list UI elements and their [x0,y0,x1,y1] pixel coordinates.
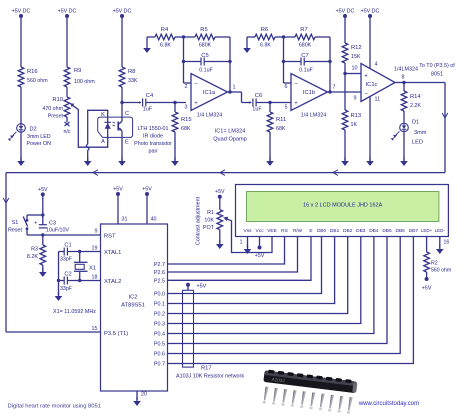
svg-text:Preset: Preset [48,114,64,120]
wire P2.6 to LCD R/W [154,245,298,277]
wire P0.1 to LCD DB1 [154,245,335,308]
svg-text:P0.4: P0.4 [154,332,165,338]
svg-text:POT: POT [203,225,215,231]
wire pin2 to feedback node [184,37,192,83]
pin 1 label [240,240,243,246]
ground for photo transistor emitter [118,157,126,166]
svg-text:P0.7: P0.7 [154,362,165,368]
pin 11 wire [370,97,380,163]
svg-text:100 ohm: 100 ohm [74,79,95,85]
svg-text:n/c: n/c [63,129,70,135]
svg-text:www.circuitstoday.com: www.circuitstoday.com [358,401,419,407]
LCD module box [236,185,449,237]
node R6/R7 junction [282,35,285,38]
pin 10 label [352,66,358,72]
svg-text:IC1c: IC1c [366,82,378,88]
resistor R13 [342,74,361,163]
svg-text:33K: 33K [128,78,138,84]
node reset top [41,213,44,216]
svg-text:1K: 1K [351,122,358,128]
pin 8 label [402,75,405,81]
microcontroller IC2 AT89S51 box [101,224,168,391]
svg-text:pair: pair [149,149,158,155]
svg-text:1uF: 1uF [143,106,153,112]
svg-text:10K: 10K [204,218,214,224]
label XTAL1 [104,250,121,256]
pin 19 label [92,246,98,252]
resistor R16 [18,67,48,124]
label K [101,112,105,118]
wire RST [43,229,116,240]
svg-text:3mm: 3mm [414,130,427,136]
svg-text:P0.1: P0.1 [154,302,165,308]
potentiometer R1 contrast [203,189,225,243]
svg-text:IC1b: IC1b [303,90,315,96]
svg-text:11: 11 [375,97,381,103]
capacitor C1 [59,243,101,263]
svg-text:5: 5 [285,104,288,110]
svg-text:33pF: 33pF [60,257,73,263]
svg-text:R17: R17 [201,366,212,372]
wire P0.7 to LCD DB7 [154,245,413,368]
svg-text:X1= 11.0592 MHz: X1= 11.0592 MHz [53,309,96,315]
wire P0.5 to LCD DB5 [154,245,387,348]
svg-text:−: − [364,92,368,98]
svg-text:A: A [101,139,105,145]
svg-text:3mm LED: 3mm LED [27,134,51,140]
svg-text:0.1uF: 0.1uF [199,68,213,74]
wire P0.0 to LCD DB0 [154,245,322,298]
node XTAL2 [78,279,81,282]
svg-text:+5V: +5V [422,286,432,292]
svg-text:R7: R7 [300,27,307,33]
resistor R3 [27,235,46,272]
ground for R4 [143,44,151,53]
svg-text:P0.3: P0.3 [154,322,165,328]
svg-text:R15: R15 [181,117,192,123]
svg-text:P2.6: P2.6 [154,270,165,276]
svg-text:Power ON: Power ON [27,141,52,147]
wire collector node to C4 [122,102,141,104]
svg-text:31: 31 [122,217,128,223]
capacitor C4 [138,93,186,113]
node IC1c output [395,81,406,84]
svg-text:1/4 LM324: 1/4 LM324 [301,113,326,119]
svg-text:C7: C7 [301,53,308,59]
svg-text:+: + [364,74,368,80]
pin 16 label [444,240,450,246]
power rail +5V DC node 2 [58,9,77,68]
svg-text:+: + [138,101,141,107]
svg-text:R3: R3 [31,247,38,253]
svg-text:P2.7: P2.7 [154,262,165,268]
pin 18 label [92,275,98,281]
svg-text:680K: 680K [299,43,312,49]
ground for R11 [266,157,274,166]
label contrast adjustment [196,196,202,245]
svg-text:AT89S51: AT89S51 [121,303,145,309]
svg-text:R11: R11 [276,117,286,123]
svg-text:C5: C5 [201,53,208,59]
resistor network R17 box [176,283,244,380]
label To T0 (P3.5) of 8051 [419,63,455,78]
svg-text:X1: X1 [89,266,96,272]
svg-text:560 ohm: 560 ohm [431,268,451,274]
ground for D2 [17,157,25,166]
svg-text:D2: D2 [30,127,37,133]
svg-text:P3.5 (T1): P3.5 (T1) [104,331,128,337]
op-amp IC1c [361,64,395,102]
label 1/4LM324 for IC1c [394,67,418,73]
pin 4 label [375,62,378,68]
svg-text:P0.5: P0.5 [154,342,165,348]
svg-text:1: 1 [240,240,243,246]
resistor R6 [247,27,284,49]
svg-text:16: 16 [444,240,450,246]
wire pin6 to feedback node [284,37,292,83]
svg-text:IC2: IC2 [128,295,137,301]
LED D2 power-on [8,123,51,162]
svg-text:1uF: 1uF [252,106,262,112]
ground for R13 [341,157,349,166]
svg-text:15: 15 [92,326,98,332]
label X1 frequency [53,309,96,315]
svg-text:6.8K: 6.8K [260,43,271,49]
ground for LED- [436,245,444,255]
svg-text:R9: R9 [74,68,81,74]
svg-text:DB7: DB7 [409,228,419,234]
R10 wiper arrow wire [70,103,108,147]
resistor R12 [342,43,361,74]
wire P0.6 to LCD DB6 [154,245,400,358]
wire P0.3 to LCD DB3 [154,245,361,328]
svg-text:16 x 2 LCD MODULE JHD 162A: 16 x 2 LCD MODULE JHD 162A [303,203,382,209]
label E [125,140,129,146]
wire divider to pin10 [345,73,361,75]
photo of SIP resistor network [263,369,358,414]
svg-text:2: 2 [185,84,188,90]
preset resistor R10 [42,97,71,135]
pin 6 label [285,84,288,90]
ground for crystal caps [55,292,63,301]
svg-text:8051: 8051 [431,72,443,78]
svg-text:LED-: LED- [435,228,446,233]
svg-text:To T0 (P3.5) of: To T0 (P3.5) of [419,63,455,69]
svg-text:K: K [101,112,105,118]
ground for IR diode [84,157,92,166]
title Digital heart rate monitor using 8051 [8,404,101,410]
svg-text:1: 1 [233,85,236,91]
svg-text:C: C [125,111,129,117]
label LTH 1550-01 block [134,126,172,155]
svg-text:C2: C2 [64,272,71,278]
svg-text:40: 40 [151,217,157,223]
photo transistor (inside opto) [118,103,122,163]
power rail +5V DC node 5 [361,9,380,69]
svg-text:DB2: DB2 [343,228,353,234]
resistor R2 backlight [422,245,451,292]
node XTAL1 [78,250,81,253]
svg-text:10uF/10V: 10uF/10V [46,228,69,234]
svg-text:33pF: 33pF [60,286,73,292]
svg-text:LTH 1550-01: LTH 1550-01 [137,126,168,132]
node divider / pin10 [343,72,346,75]
power +5V pin 31 [113,187,127,225]
ground for R1 [216,240,224,249]
wire R5/C5 to output node [228,37,231,94]
svg-text:3: 3 [185,104,188,110]
ground for pin 20 [133,397,141,406]
ground for R15 [171,157,179,166]
svg-text:+: + [194,101,198,107]
capacitor C3 [34,220,69,233]
svg-text:8.2K: 8.2K [27,254,38,260]
svg-text:10: 10 [352,66,358,72]
svg-text:+5V: +5V [255,253,265,259]
svg-text:DB5: DB5 [382,228,392,234]
label www.circuitstoday.com [358,401,419,407]
svg-text:−: − [194,82,198,88]
svg-text:D1: D1 [412,120,419,126]
resistor R11 [267,103,286,163]
svg-text:P0.6: P0.6 [154,352,165,358]
svg-text:+5V DC: +5V DC [336,9,355,15]
svg-text:R12: R12 [351,45,362,51]
svg-text:1/4LM324: 1/4LM324 [394,67,418,73]
opto-coupler package LTH1550 outline [98,117,133,137]
svg-text:+: + [34,220,37,226]
svg-text:C6: C6 [255,93,262,99]
svg-text:+5V: +5V [38,187,48,193]
svg-text:P2.5: P2.5 [154,278,165,284]
svg-text:IC1= LM324: IC1= LM324 [215,129,246,135]
op-amp IC1b [291,74,328,119]
svg-text:+5V DC: +5V DC [361,9,380,15]
push switch S1 reset [8,215,43,235]
IR diode (inside opto) with K-A wire [104,122,115,131]
svg-text:Contrast adjustment: Contrast adjustment [196,196,202,245]
svg-text:E: E [125,140,129,146]
svg-text:R5: R5 [200,27,207,33]
svg-text:DB6: DB6 [396,228,406,234]
svg-text:Quad Opamp: Quad Opamp [213,137,247,143]
svg-text:VEE: VEE [267,228,277,234]
capacitor C2 [59,272,101,292]
pin 15 label [92,326,98,332]
svg-text:+5V: +5V [113,187,123,193]
pin 5 label [285,104,288,110]
resistor R8 [119,67,138,103]
power +5V at Vcc [255,245,265,260]
resistor R15 [172,103,191,163]
node C4 / R15 / pin3 [173,101,176,104]
svg-text:+5V DC: +5V DC [12,9,31,15]
ground for D1 [400,157,408,166]
svg-text:+5V: +5V [197,284,207,290]
svg-text:R6: R6 [261,27,268,33]
svg-text:RS: RS [281,228,288,234]
pin 1 label [233,85,236,91]
svg-text:+5V: +5V [215,189,225,195]
resistor R14 [401,83,421,123]
svg-text:68K: 68K [276,126,286,132]
node C6 / R11 / pin5 [268,101,271,104]
svg-text:C1: C1 [64,243,71,249]
svg-text:18: 18 [92,275,98,281]
svg-text:E: E [309,228,312,234]
label C [125,111,129,117]
svg-text:LED: LED [412,140,423,146]
crystal X1 [74,252,96,281]
svg-text:7: 7 [333,85,336,91]
resistor R7 [284,27,331,49]
pin 7 label [333,85,336,91]
svg-text:Vss: Vss [244,228,253,234]
power rail +5V DC node 1 [12,9,31,68]
svg-text:R8: R8 [128,69,135,75]
node at R8 / C4 / collector [120,101,123,104]
op-amp IC1a [191,74,228,119]
label XTAL2 [104,279,121,285]
svg-text:RST: RST [104,233,116,239]
power rail +5V DC node 3 [113,9,132,68]
svg-text:+5V DC: +5V DC [113,9,132,15]
svg-text:C3: C3 [49,221,56,227]
resistor R5 [184,27,231,49]
svg-text:R13: R13 [351,113,362,119]
svg-text:DB0: DB0 [317,228,327,234]
ground for R6 [243,44,251,53]
wire P0.4 to LCD DB4 [154,245,374,338]
svg-text:Vcc: Vcc [256,228,265,234]
svg-text:IR diode: IR diode [143,134,163,140]
LED D1 [391,120,427,163]
svg-text:Digital heart rate monitor usi: Digital heart rate monitor using 8051 [8,404,101,410]
svg-text:20: 20 [141,392,147,398]
svg-text:LED+: LED+ [421,228,433,233]
svg-text:0.1uF: 0.1uF [299,68,313,74]
svg-text:Reset: Reset [8,228,23,234]
wire IC1c output to T0 (feedback to 8051) [3,83,448,333]
svg-text:9: 9 [95,229,98,235]
svg-text:680K: 680K [199,43,212,49]
svg-text:15K: 15K [351,54,361,60]
capacitor C6 [248,93,291,113]
capacitor C5 [184,53,231,74]
svg-text:IC1a: IC1a [203,90,216,96]
svg-text:+5V DC: +5V DC [58,9,77,15]
svg-text:DB1: DB1 [330,228,340,234]
svg-text:470 ohm: 470 ohm [42,106,63,112]
svg-text:8: 8 [402,75,405,81]
svg-text:R14: R14 [410,94,421,100]
ground for Vss [244,245,252,255]
pin 20 ground wire [137,391,147,400]
svg-text:R4: R4 [161,27,169,33]
LCD pin labels [244,228,446,234]
svg-text:9: 9 [354,96,357,102]
svg-text:1/4 LM324: 1/4 LM324 [197,113,222,119]
svg-text:A103J 10K Resistor network: A103J 10K Resistor network [176,374,244,380]
svg-text:Photo transistor: Photo transistor [134,141,172,147]
svg-text:68K: 68K [181,126,191,132]
ground for pin 11 [366,157,374,166]
svg-text:6.8K: 6.8K [160,43,171,49]
wire IC1a output to C6 [228,92,252,103]
svg-text:C4: C4 [146,93,154,99]
svg-text:P0.2: P0.2 [154,312,165,318]
node C5 junction [182,60,185,63]
resistor R4 [147,27,184,49]
label P3.5 (T1) [104,331,128,337]
svg-text:P0.0: P0.0 [154,292,165,298]
node C7 junction [282,60,285,63]
label A [101,139,105,145]
node reset bottom [41,233,44,236]
svg-text:R1: R1 [207,210,214,216]
svg-text:XTAL2: XTAL2 [104,279,121,285]
svg-text:−: − [294,82,298,88]
label IC1 = LM324 [213,129,247,143]
resistor R9 [64,67,95,97]
svg-text:R10: R10 [52,97,63,103]
svg-text:+: + [294,101,298,107]
node R4/R5 junction [182,35,185,38]
svg-text:+: + [248,101,251,107]
capacitor C7 [284,53,331,74]
svg-text:XTAL1: XTAL1 [104,250,121,256]
svg-text:R/W: R/W [293,228,303,234]
svg-text:2.2K: 2.2K [410,103,421,109]
power rail +5V DC node 4 [336,9,355,44]
wire IC1b output to pin9 [328,91,362,93]
svg-text:DB4: DB4 [369,228,379,234]
svg-text:19: 19 [92,246,98,252]
wire C1/C2 common to ground [57,252,60,296]
wire VEE to contrast pot [223,217,272,253]
power +5V reset rail [38,187,48,225]
pin 2 label [185,84,188,90]
svg-text:DB3: DB3 [356,228,366,234]
LCD pin stubs [248,237,440,245]
wire K terminal to ground [86,110,107,162]
wire P2.5 to LCD E [154,245,311,285]
svg-text:+5V: +5V [142,187,152,193]
svg-text:560 ohm: 560 ohm [27,78,48,84]
svg-text:6: 6 [285,84,288,90]
svg-text:4: 4 [375,62,378,68]
svg-text:R2: R2 [431,261,438,267]
svg-text:R16: R16 [27,69,38,75]
svg-text:S1: S1 [12,220,19,226]
power +5V pin 40 [142,187,156,225]
pin 9 label [354,96,357,102]
ground for R3 [39,268,47,277]
wire P0.2 to LCD DB2 [154,245,348,318]
wire P2.7 to LCD RS [154,245,285,269]
pin 3 label [185,104,188,110]
wire R7/C7 to output node [328,37,331,94]
